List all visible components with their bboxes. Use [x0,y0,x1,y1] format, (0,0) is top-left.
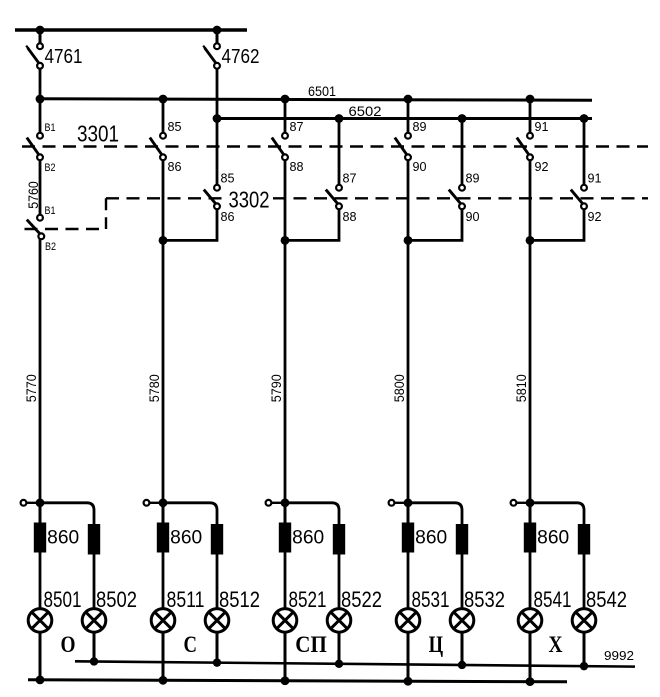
label 5810 (vertical) [513,374,529,402]
junction return bus 8541 [526,677,535,686]
junction 6501 col B1 [36,95,45,104]
wire lamp 8522 to bus 9992 [338,632,341,665]
wire main col 5780 [162,160,165,503]
svg-text:5790: 5790 [268,374,284,402]
svg-text:8512: 8512 [219,587,260,612]
wire junction to resistor 8521 [284,503,287,524]
junction 6502 col 87 [335,114,344,123]
wire lamp 8511 to return bus [162,632,165,681]
terminal circle col 8521 [266,500,272,506]
lamp 8501 [28,609,52,633]
svg-text:90: 90 [466,209,480,224]
junction resistor row 8501 [36,498,45,507]
svg-text:88: 88 [343,209,357,224]
svg-text:86: 86 [221,209,235,224]
junction top bus to 4762 [213,26,222,35]
lamp 8532 [450,609,474,633]
svg-text:92: 92 [535,159,549,174]
wire 6502 down 89 [461,119,464,186]
svg-text:Ц: Ц [429,632,444,657]
junction return bus 8531 [404,677,413,686]
svg-text:B2: B2 [45,241,56,253]
svg-text:3302: 3302 [229,187,270,213]
wire main col 5800 [407,160,410,503]
contact 89-90 row 3301 [395,133,411,160]
junction resistor row 8511 [159,498,168,507]
switch 4761 [26,30,43,99]
svg-text:5810: 5810 [513,374,529,402]
linkage 3301 (dashed) [22,145,648,147]
contact 87-88 row 3301 [272,133,288,160]
wire 6502 down 87 [338,119,341,186]
lamp 8521 [273,609,297,633]
wire junction to resistor 8531 [407,503,410,524]
contact B1-B2 row 3302 col1 [27,215,44,239]
label 5780 (vertical) [146,374,162,402]
junction resistor row 8541 [526,498,535,507]
junction 6502 col 91 [580,114,589,123]
svg-text:860: 860 [537,528,569,549]
contact 87-88 row 3302 [326,185,342,209]
junction return bus 8501 [36,675,45,684]
junction return bus 8521 [281,676,290,685]
svg-text:89: 89 [413,119,427,134]
wire contact 86 to main col [163,209,217,241]
terminal circle col 8531 [389,500,395,506]
svg-text:860: 860 [170,528,202,549]
svg-text:87: 87 [290,119,304,134]
svg-text:8541: 8541 [534,587,572,612]
bottom return bus [28,680,567,682]
resistor 860 (8541) [524,523,536,553]
resistor 860 (8532) [456,524,468,555]
svg-text:85: 85 [168,119,182,134]
svg-text:86: 86 [168,159,182,174]
resistor 860 (8511) [157,523,169,553]
wire lamp 8541 to return bus [529,632,532,682]
branch wire to 8522 [285,503,339,524]
wire resistor to lamp 8541 [529,553,532,610]
junction 9992 8532 [458,661,466,669]
wire terminal to main 8541 [516,502,530,504]
resistor 860 (8502) [88,524,100,555]
wire lamp 8501 to return bus [39,632,42,681]
wire resistor to lamp 8532 [461,555,464,610]
svg-text:91: 91 [535,119,549,134]
lamp 8541 [518,609,542,633]
svg-text:87: 87 [343,171,357,186]
wire resistor to lamp 8521 [284,553,287,610]
bus 6501 [38,99,592,101]
resistor 860 (8531) [402,523,414,553]
wire terminal to main 8531 [394,502,408,504]
svg-text:О: О [61,632,76,657]
wire lamp 8512 to bus 9992 [216,632,219,663]
contact 91-92 row 3301 [517,133,533,160]
wire resistor to lamp 8522 [338,555,341,610]
svg-text:8522: 8522 [341,587,382,612]
svg-text:6502: 6502 [349,103,382,119]
svg-text:5780: 5780 [146,374,162,402]
svg-text:8501: 8501 [44,587,82,612]
svg-text:4761: 4761 [45,46,83,68]
junction col main 5790 [281,236,290,245]
wire 6501 down col1 [39,99,42,133]
svg-text:90: 90 [413,159,427,174]
svg-text:5800: 5800 [391,374,407,402]
resistor 860 (8542) [578,524,590,555]
svg-text:8511: 8511 [167,587,205,612]
wire junction to resistor 8541 [529,503,532,524]
junction return bus 8511 [159,676,168,685]
wire main col 5790 [284,160,287,503]
junction 6501 col 85 [159,95,168,104]
wire resistor to lamp 8531 [407,553,410,610]
lamp 8502 [82,609,106,633]
junction 6501 col 91 [526,95,535,104]
contact 89-90 row 3302 [449,185,465,209]
svg-text:860: 860 [47,528,79,549]
svg-text:5770: 5770 [23,374,39,402]
lamp 8542 [572,609,596,633]
wire lamp 8532 to bus 9992 [461,632,464,666]
wire main col 5810 [529,160,532,503]
wire col1 down [39,239,42,503]
lamp 8531 [396,609,420,633]
wire junction to resistor 8501 [39,503,42,524]
svg-text:4762: 4762 [222,46,260,68]
wire contact 90 to main col [408,209,462,241]
junction 6501 col 89 [404,95,413,104]
switch 4762 [203,30,220,185]
wire lamp 8521 to return bus [284,632,287,681]
wire resistor to lamp 8501 [39,553,42,610]
junction 9992 8542 [580,662,588,670]
svg-text:Х: Х [549,632,563,657]
resistor 860 (8512) [211,524,223,555]
svg-text:860: 860 [415,528,447,549]
wire resistor to lamp 8542 [583,555,586,610]
wire terminal to main 8511 [149,502,163,504]
wire lamp 8502 to bus 9992 [93,632,96,662]
wire 6502 down 91 [583,119,586,186]
resistor 860 (8501) [34,523,46,553]
resistor 860 (8522) [333,524,345,555]
contact 91-92 row 3302 [571,185,587,209]
wire 6501 down col5 [529,99,532,133]
junction col main 5800 [404,236,413,245]
wire resistor to lamp 8502 [93,555,96,610]
svg-text:B1: B1 [45,205,56,217]
svg-text:8502: 8502 [96,587,137,612]
wire col1 between contacts [39,160,42,215]
lamp 8522 [327,609,351,633]
svg-text:92: 92 [588,209,602,224]
wire contact 88 to main col [285,209,339,241]
svg-text:СП: СП [295,632,327,657]
wire junction to resistor 8511 [162,503,165,524]
linkage 3302 (dashed) [25,198,649,229]
svg-text:9992: 9992 [604,648,634,663]
label 5760 (vertical) [25,181,41,209]
svg-text:С: С [184,632,198,657]
junction col main 5810 [526,236,535,245]
svg-text:3301: 3301 [77,121,119,147]
junction 6502 col 85 [213,114,222,123]
svg-text:B1: B1 [45,122,56,134]
svg-text:6501: 6501 [308,83,336,99]
wire lamp 8531 to return bus [407,632,410,682]
wire 6501 down col2 [162,99,165,133]
bus 6502 [217,117,592,120]
svg-text:88: 88 [290,159,304,174]
terminal circle col 8501 [21,500,27,506]
svg-text:8542: 8542 [586,587,627,612]
svg-text:5760: 5760 [25,181,41,209]
contact 85-86 row 3301 [150,133,166,160]
wire terminal to main 8501 [26,502,40,504]
junction top bus to 4761 [36,26,45,35]
branch wire to 8542 [530,503,584,524]
junction 6502 col 89 [458,114,467,123]
wire resistor to lamp 8512 [216,555,219,610]
terminal circle col 8511 [144,500,150,506]
label 5800 (vertical) [391,374,407,402]
svg-text:85: 85 [221,171,235,186]
resistor 860 (8521) [279,523,291,553]
lamp 8512 [205,609,229,633]
contact 85-86 row 3302 [204,185,220,209]
bus 9992 [75,661,635,666]
junction 9992 8512 [213,658,221,666]
svg-text:91: 91 [588,171,602,186]
wire lamp 8542 to bus 9992 [583,632,586,667]
branch wire to 8502 [40,503,94,524]
junction resistor row 8521 [281,498,290,507]
svg-text:89: 89 [466,171,480,186]
wire terminal to main 8521 [271,502,285,504]
top supply bus [15,28,247,31]
junction 9992 8502 [90,657,98,665]
lamp 8511 [151,609,175,633]
svg-text:8521: 8521 [289,587,327,612]
wire 6501 down col4 [407,99,410,133]
branch wire to 8512 [163,503,217,524]
wire 6501 down col3 [284,99,287,133]
svg-text:8531: 8531 [412,587,450,612]
branch wire to 8532 [408,503,462,524]
junction resistor row 8531 [404,498,413,507]
label 5790 (vertical) [268,374,284,402]
svg-text:B2: B2 [45,162,56,174]
wire contact 92 to main col [530,209,584,241]
contact B1-B2 row 3301 [27,133,43,160]
svg-text:860: 860 [292,528,324,549]
terminal circle col 8541 [511,500,517,506]
junction 9992 8522 [335,660,343,668]
label 5770 (vertical) [23,374,39,402]
wire resistor to lamp 8511 [162,553,165,610]
svg-text:8532: 8532 [464,587,505,612]
junction 6501 col 87 [281,95,290,104]
junction col main 5780 [159,236,168,245]
